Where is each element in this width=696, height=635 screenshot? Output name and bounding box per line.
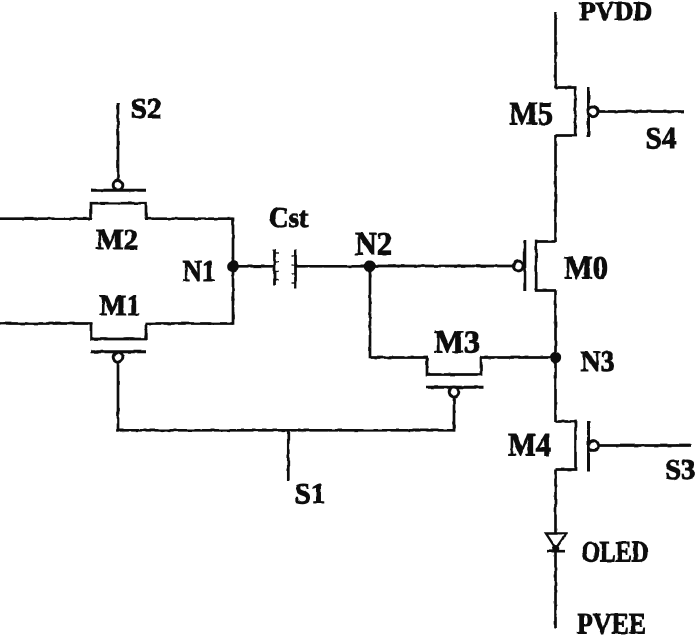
wire M1 source to left edge (0, 322, 92, 325)
transistor M2 (91, 180, 146, 218)
wire S1 stub (287, 430, 290, 481)
wire M1 drain to N1 branch (145, 322, 233, 325)
svg-text:N3: N3 (581, 345, 615, 378)
wire OLED cathode to PVEE (554, 551, 557, 628)
svg-text:Cst: Cst (269, 202, 308, 234)
wire M0 source to node N3 (554, 291, 557, 359)
wire M4 source to OLED anode (554, 470, 557, 535)
wire M5 source to M0 drain (554, 136, 557, 243)
svg-text:PVEE: PVEE (577, 608, 646, 635)
svg-text:N1: N1 (183, 253, 216, 288)
wire N3 to M4 drain (554, 358, 557, 423)
svg-text:N2: N2 (355, 227, 392, 263)
wire M2 source to left edge (0, 217, 92, 220)
transistor M4 (556, 422, 599, 472)
transistor M0 (513, 240, 555, 291)
node N3 (550, 352, 561, 363)
wire S1 horizontal (117, 429, 455, 432)
svg-text:PVDD: PVDD (579, 0, 652, 26)
transistor M1 (91, 324, 146, 362)
wire N1 to Cst (233, 265, 275, 268)
wire M2 drain to N1 branch (145, 217, 233, 220)
wire vertical through N1 (232, 218, 235, 325)
wire M1 gate down (117, 362, 120, 432)
wire N2 branch to M3 source (370, 356, 428, 359)
capacitor Cst (275, 249, 296, 289)
svg-text:M4: M4 (508, 428, 551, 464)
svg-text:M0: M0 (564, 251, 608, 287)
diode OLED (546, 534, 566, 553)
wire Cst to N2 (296, 265, 371, 268)
node N1 (227, 261, 239, 273)
svg-text:OLED: OLED (582, 536, 649, 568)
svg-text:S4: S4 (646, 120, 677, 155)
svg-text:S2: S2 (131, 93, 162, 125)
svg-text:M1: M1 (100, 289, 141, 322)
wire M5 gate to S4 (597, 110, 684, 113)
svg-text:M2: M2 (96, 225, 138, 256)
transistor M3 (426, 358, 483, 397)
svg-text:S1: S1 (295, 478, 326, 510)
wire M4 gate to S3 (597, 444, 691, 447)
node N2 (364, 261, 376, 273)
svg-text:M5: M5 (509, 96, 553, 132)
svg-text:M3: M3 (434, 324, 480, 360)
transistor M5 (556, 87, 598, 137)
wire PVDD to M5 drain (554, 12, 557, 88)
wire N2 down to M3 (369, 266, 372, 359)
svg-text:S3: S3 (665, 454, 696, 486)
wire S2 to M2 gate (117, 103, 120, 181)
wire M3 drain to N3 (480, 356, 556, 359)
wire S1 up to M3 gate (453, 396, 456, 432)
wire N2 to M0 gate (370, 265, 514, 268)
